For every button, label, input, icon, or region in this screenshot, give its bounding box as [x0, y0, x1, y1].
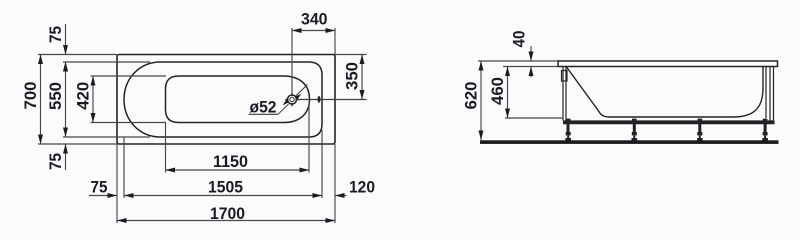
- svg-text:75: 75: [46, 153, 65, 170]
- tub outer rectangle: [117, 55, 335, 145]
- dimension 75 (top left): [65, 24, 67, 55]
- dimension 620: [480, 61, 482, 140]
- side view extension lines: [478, 61, 563, 118]
- dimension 1150: [166, 169, 310, 171]
- centerline from drain to right: [297, 99, 367, 101]
- tub interior left slope: [567, 67, 610, 117]
- svg-text:ø52: ø52: [250, 97, 277, 116]
- svg-text:1505: 1505: [208, 178, 243, 197]
- dimension 75 (bottom, outside left): [89, 195, 117, 197]
- svg-text:340: 340: [301, 9, 328, 28]
- adjustable feet: [565, 124, 767, 141]
- svg-text:620: 620: [462, 82, 481, 110]
- centerline end tick: [318, 96, 321, 103]
- dimension 460: [507, 67, 509, 119]
- svg-text:1150: 1150: [213, 152, 248, 171]
- dimension 700 (left): [40, 55, 42, 145]
- drain symbol: [285, 93, 298, 106]
- dimension 420 (left): [92, 76, 94, 123]
- svg-text:40: 40: [510, 31, 529, 48]
- svg-text:1700: 1700: [210, 204, 245, 223]
- tub interior right wall: [733, 67, 763, 117]
- left extension lines: [38, 55, 166, 145]
- dimension 340 (top): [292, 28, 335, 55]
- svg-text:350: 350: [343, 62, 362, 90]
- svg-text:460: 460: [488, 77, 507, 105]
- svg-text:75: 75: [46, 26, 65, 43]
- tub bottom inner outline: [166, 76, 310, 123]
- svg-text:700: 700: [21, 82, 40, 110]
- tub floor: [609, 116, 733, 118]
- dimension 40: [530, 46, 532, 61]
- tub rim inner outline: [124, 62, 322, 137]
- dimension 75 (bottom left of plan): [65, 144, 67, 170]
- right frame upright: [769, 67, 771, 121]
- rail support blocks: [566, 119, 767, 121]
- dimension 350 (right of plan): [335, 55, 367, 100]
- drain leader line with arrows: [278, 85, 308, 115]
- tub outer right wall: [765, 67, 767, 118]
- svg-text:75: 75: [91, 178, 108, 197]
- svg-text:550: 550: [46, 82, 65, 110]
- dimension 1700: [117, 220, 335, 222]
- left bracket: [562, 71, 568, 82]
- svg-text:120: 120: [349, 178, 375, 197]
- rim bar: [558, 61, 778, 67]
- dimension 120 (bottom, outside right): [335, 195, 347, 197]
- left frame upright: [562, 67, 564, 121]
- drain vertical extension up: [291, 28, 293, 95]
- svg-text:420: 420: [74, 82, 93, 110]
- floor line: [480, 140, 779, 144]
- dimension 550 (left): [65, 62, 67, 137]
- dimension 1505: [124, 195, 322, 197]
- frame rail: [563, 120, 775, 124]
- bottom extension droplines: [117, 102, 335, 223]
